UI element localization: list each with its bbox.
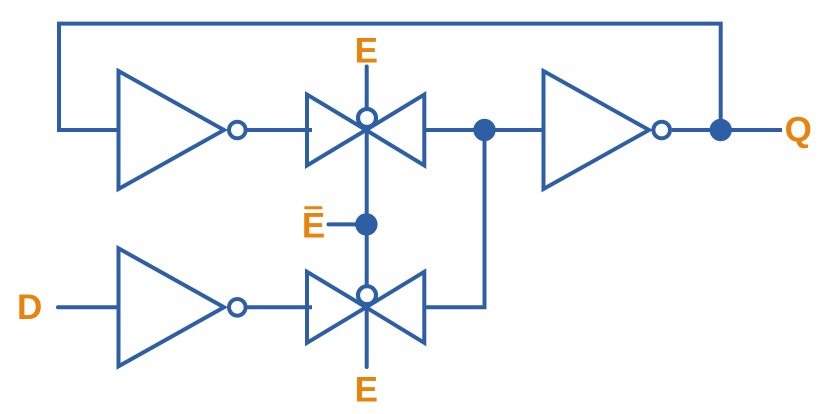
svg-text:E: E: [355, 32, 378, 71]
bubble on U2 output: [653, 122, 670, 139]
bubble on TG2 control (PMOS side): [358, 286, 376, 304]
transmission gate TG1 (top): [307, 95, 424, 166]
svg-text:E: E: [355, 371, 378, 410]
wire: U1 output to TG1 input: [248, 128, 313, 132]
wire: feedback loop from Q node back to U1 input: [59, 24, 721, 131]
inverter U1 (top-left): [119, 71, 225, 189]
wire: U3 output to TG2 input: [248, 305, 313, 309]
node: junction dot between TG1 and U2: [473, 119, 495, 141]
overbar of E-bar label: [304, 206, 322, 209]
inverter U3 (bottom-left): [119, 248, 225, 366]
wire: vertical control line E through TG1, E-bar node, TG2: [365, 67, 369, 368]
node: Q output dot: [710, 119, 732, 141]
wire: TG1 output to junction node: [424, 128, 544, 132]
bubble on U1 output: [229, 122, 246, 139]
svg-text:E: E: [302, 206, 325, 245]
inverter U2 (top-right): [544, 71, 650, 189]
svg-text:D: D: [17, 288, 42, 327]
wire: U2 output to Q: [672, 128, 782, 132]
wire: junction down to TG2 output: [424, 130, 485, 307]
wire: D input to U3: [58, 305, 121, 309]
transmission gate TG2 (bottom): [307, 272, 424, 343]
bubble on TG1 control (PMOS side): [358, 109, 376, 127]
node: E-bar junction dot: [355, 213, 377, 235]
svg-text:Q: Q: [785, 111, 812, 150]
bubble on U3 output: [229, 299, 246, 316]
wire: E-bar label to control line: [329, 222, 367, 226]
